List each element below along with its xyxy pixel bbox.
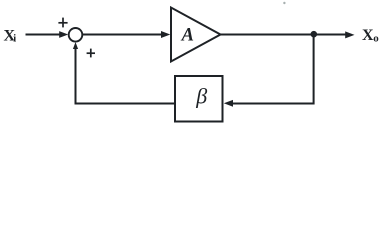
svg-text:A: A	[181, 26, 194, 46]
svg-text:β: β	[195, 84, 207, 109]
svg-text:o: o	[373, 32, 379, 44]
svg-text:i: i	[13, 34, 16, 45]
svg-text:X: X	[362, 27, 374, 44]
